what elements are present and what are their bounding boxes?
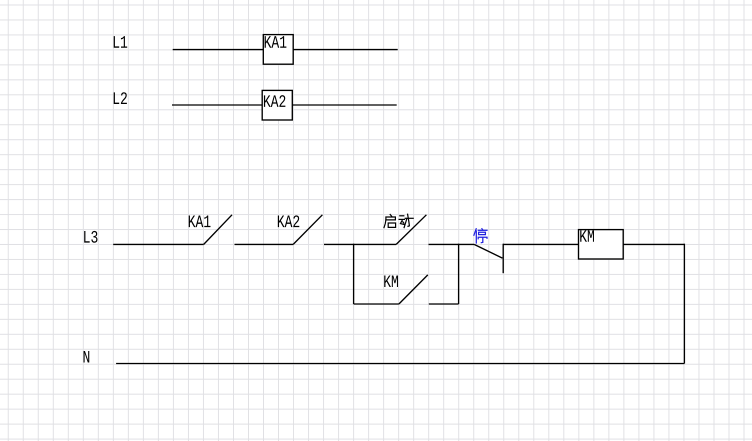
- net label L1: [114, 36, 127, 48]
- label KA2: [264, 95, 285, 107]
- label KA1 contact: [189, 216, 211, 228]
- wire: [324, 243, 396, 245]
- label KM contact: [384, 275, 398, 287]
- wire: [429, 303, 459, 305]
- label KA1: [265, 36, 287, 48]
- contact 启动 start button (NO): [396, 215, 426, 245]
- net label L2: [114, 92, 127, 104]
- wire: [503, 243, 578, 245]
- contact KM self-holding (NO): [399, 275, 428, 304]
- contact KA1 (NO): [204, 215, 232, 245]
- wire: [429, 243, 475, 245]
- wire: [235, 243, 294, 245]
- label KA2 contact: [278, 215, 299, 227]
- wire: [623, 243, 684, 245]
- contact 停 stop button (NC) terminal bar: [502, 244, 504, 274]
- wire: [293, 49, 398, 51]
- wire: [354, 303, 399, 305]
- wire branch right riser: [458, 244, 460, 304]
- wire: [172, 104, 262, 106]
- relay coil KA1: [263, 35, 293, 65]
- relay coil KA2: [262, 90, 292, 120]
- wire: [113, 243, 204, 245]
- label 停 (stop): [474, 229, 487, 243]
- contactor coil KM: [579, 230, 624, 259]
- wire: [292, 104, 396, 106]
- contact KA2 (NO): [293, 215, 322, 245]
- wire N line: [116, 363, 684, 365]
- wire branch left drop: [353, 244, 355, 304]
- label 启动 (start): [384, 214, 413, 227]
- label KM coil: [580, 230, 594, 242]
- net label N: [84, 351, 90, 363]
- wire: [173, 49, 264, 51]
- contact 停 stop button (NC) blade: [474, 244, 502, 258]
- net label L3: [84, 231, 97, 243]
- wire: [683, 244, 685, 364]
